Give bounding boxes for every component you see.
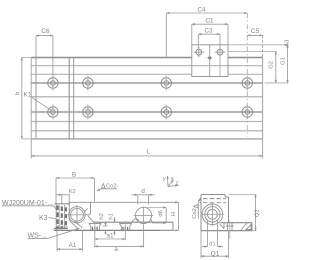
svg-text:b: b [15, 92, 21, 95]
dimension d1 [202, 220, 223, 247]
node: center diamond on block [207, 45, 213, 77]
wire: groove diagonals lower [70, 221, 83, 229]
svg-text:d1: d1 [209, 241, 215, 247]
dimension C4 [166, 13, 247, 137]
hole A1 plan (row1 col1) [48, 76, 58, 91]
wire: hidden dash row 1 [203, 198, 226, 200]
wire: table end face [68, 58, 70, 139]
wire: chamfer marks in bar [241, 223, 248, 231]
wire: groove diagonal upper [85, 209, 88, 212]
dimension C1 [192, 24, 228, 45]
wire: table left wall [55, 204, 57, 231]
screw S2 plan [215, 47, 226, 58]
svg-text:x: x [171, 176, 174, 182]
dimension C5 [247, 35, 262, 57]
svg-text:C6: C6 [41, 28, 50, 35]
label Co2 flag top [97, 184, 117, 192]
wire: rail top surface line to H [69, 201, 178, 203]
wire: hidden line tails left of block [200, 199, 201, 203]
cam follower boss (front) [132, 207, 154, 226]
wire: rail lip right [87, 202, 93, 222]
svg-text:A1: A1 [69, 242, 77, 249]
wire: screw S2 centerline extended [219, 45, 221, 77]
dimension h1 rotated [114, 217, 116, 236]
dimension A1 [57, 230, 83, 251]
coordinate axes symbol [168, 176, 179, 187]
svg-text:B: B [72, 172, 76, 179]
screw F2 (front) [119, 221, 131, 233]
dimension a1 [95, 230, 126, 247]
dimension L [31, 139, 262, 159]
dimension G2 [228, 52, 277, 83]
svg-text:z: z [176, 181, 179, 187]
dimension B [56, 178, 95, 204]
wire: rail section left face [68, 202, 70, 221]
roller R1 (front view) [67, 205, 88, 225]
dimension h2 rotated [103, 221, 109, 234]
wire: hole row 2 centerline [31, 111, 262, 113]
svg-text:y: y [163, 176, 166, 182]
svg-text:A3: A3 [285, 40, 291, 47]
svg-text:d6: d6 [158, 210, 164, 216]
screw F1 (front) [89, 221, 101, 233]
svg-text:K3: K3 [39, 215, 48, 222]
block U1 (slide unit plan) [192, 45, 228, 77]
svg-text:K2: K2 [69, 189, 76, 195]
dimension G1 [228, 45, 289, 83]
hatch: table wall section [58, 206, 66, 230]
svg-text:h2: h2 [99, 213, 105, 219]
dimension d6 rotated [146, 208, 166, 224]
node: section triangle mark [246, 225, 251, 230]
wire: right bar top [221, 222, 253, 224]
wire: plan bottom edge [31, 138, 262, 140]
svg-text:Q1: Q1 [211, 251, 220, 258]
wire: table top (front) [55, 203, 71, 205]
hole A3 plan (row1 col3) [161, 76, 171, 91]
svg-text:Q2: Q2 [255, 209, 261, 217]
wire: plan left end [30, 58, 32, 139]
screw S1 plan [194, 47, 205, 58]
dimension C6 [36, 36, 53, 77]
wire: hole row 1 centerline [31, 82, 262, 84]
wire: block outline [201, 195, 229, 231]
wire: upper interior line 2 [31, 73, 192, 75]
svg-text:G1: G1 [281, 57, 287, 65]
svg-text:Co2-: Co2- [192, 206, 198, 219]
svg-text:L: L [147, 149, 151, 156]
wire: table foot lines [54, 226, 68, 230]
svg-text:Co2-: Co2- [106, 184, 119, 190]
dimension Q1 [201, 231, 229, 259]
svg-text:d: d [141, 188, 145, 195]
screw G1 (right view section) [226, 221, 234, 239]
wire: bar right end [172, 222, 174, 230]
hole B2 plan (row2 col2) [83, 105, 93, 120]
hole B1 plan (row2 col1) [48, 105, 58, 120]
dimension d [132, 195, 155, 205]
wire: right bar bottom [201, 230, 252, 232]
svg-text:h1: h1 [108, 213, 114, 219]
wire: lower interior line 2 [31, 130, 262, 132]
wire: bottom edge [54, 229, 173, 231]
svg-text:K1: K1 [24, 91, 32, 98]
dimension H rotated [178, 202, 180, 230]
svg-text:C3: C3 [204, 28, 213, 35]
wire: K2 slot sides [59, 194, 69, 228]
svg-text:C4: C4 [197, 7, 206, 14]
wire: hidden dash row 2 [203, 202, 226, 204]
svg-text:H: H [171, 212, 177, 216]
svg-text:C1: C1 [205, 18, 214, 25]
wire: right view hook [220, 223, 225, 229]
roller R2 (right view) [201, 202, 225, 226]
svg-text:a: a [114, 246, 118, 253]
svg-text:G2: G2 [269, 61, 275, 69]
wire: base bar top [94, 221, 173, 223]
dimension Q2 rotated [229, 195, 257, 231]
wire: lower interior line [31, 121, 262, 123]
hole B4 plan (row2 col4) [242, 105, 252, 120]
wire: rail right end [262, 58, 264, 139]
wire: right bar end [251, 223, 253, 231]
wire: bottom ext to H [160, 229, 179, 231]
hole A2 plan (row1 col2) [83, 76, 93, 91]
dimension b rotated [22, 58, 31, 139]
dimension C3 [198, 34, 220, 48]
wire: upper interior line [31, 65, 262, 67]
label Co2 flag rotated (right view) [194, 198, 201, 218]
wire: mid seam line [31, 96, 262, 98]
wire: plan top edge [31, 57, 192, 59]
wire: table left face [35, 58, 37, 139]
svg-text:a1: a1 [106, 232, 114, 239]
wire: rail end face left [73, 58, 75, 139]
svg-text:C5: C5 [251, 28, 260, 35]
dimension a [95, 225, 144, 247]
hole A4 plan (row1 col4) [242, 76, 252, 91]
hole B3 plan (row2 col3) [161, 105, 171, 120]
